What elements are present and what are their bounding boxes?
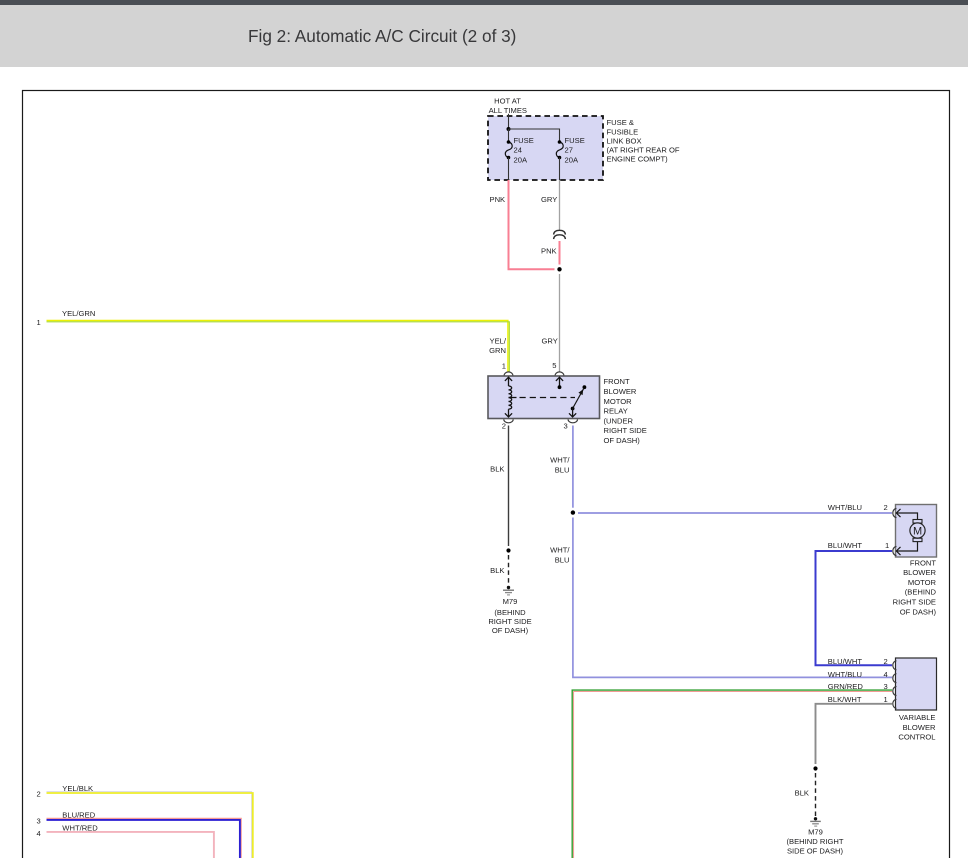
svg-text:BLK: BLK bbox=[795, 788, 809, 797]
label: VARIABLE BLOWER CONTROL bbox=[898, 713, 936, 742]
wire YEL/BLK: edge to bottom (yellow+faint pair) bbox=[47, 792, 253, 858]
relay coil with terminal arrows (pin1-pin2) bbox=[505, 377, 512, 417]
svg-text:1: 1 bbox=[885, 541, 889, 550]
svg-text:2: 2 bbox=[37, 789, 41, 798]
svg-text:1: 1 bbox=[502, 361, 506, 370]
svg-text:BLK: BLK bbox=[490, 465, 504, 474]
svg-text:FRONT: FRONT bbox=[604, 377, 631, 386]
svg-text:FUSE: FUSE bbox=[565, 136, 585, 145]
wire BLU/WHT: motor pin 1 to VBC pin 2 bbox=[816, 551, 893, 665]
svg-text:(BEHIND: (BEHIND bbox=[905, 588, 937, 597]
svg-text:VARIABLE: VARIABLE bbox=[899, 713, 936, 722]
connector arc: relay pin 3 bbox=[568, 419, 577, 422]
svg-text:WHT/BLU: WHT/BLU bbox=[828, 670, 862, 679]
svg-text:WHT/: WHT/ bbox=[550, 545, 570, 554]
wire BLK: relay pin 2 down bbox=[508, 426, 510, 547]
svg-text:MOTOR: MOTOR bbox=[908, 578, 937, 587]
svg-text:1: 1 bbox=[37, 318, 41, 327]
ground M79 (left) bbox=[503, 586, 514, 595]
connector arc: relay pin 1 bbox=[504, 372, 513, 376]
svg-text:BLU/WHT: BLU/WHT bbox=[828, 657, 863, 666]
label WHT/ BLU (lower) bbox=[550, 545, 570, 564]
svg-text:FUSE &: FUSE & bbox=[607, 118, 634, 127]
relay pin 5 contact stem bbox=[556, 377, 563, 387]
svg-text:MOTOR: MOTOR bbox=[604, 397, 633, 406]
svg-text:WHT/: WHT/ bbox=[550, 455, 570, 464]
wire BLU/RED: edge to bottom (red+blue pair) bbox=[47, 818, 242, 858]
svg-text:27: 27 bbox=[565, 146, 573, 155]
svg-text:4: 4 bbox=[37, 829, 41, 838]
wire: battery feed into fuse box bbox=[508, 114, 510, 129]
svg-text:4: 4 bbox=[884, 670, 888, 679]
svg-text:LINK BOX: LINK BOX bbox=[607, 136, 642, 145]
wire: bus to fuse 24 bbox=[508, 129, 510, 142]
svg-text:20A: 20A bbox=[565, 156, 579, 165]
wire: fuse 24 to box edge bbox=[508, 158, 510, 181]
connector arc: VBC pin 4 bbox=[893, 674, 897, 683]
relay dashed actuator link bbox=[509, 397, 517, 399]
connector arc: relay pin 5 bbox=[555, 372, 564, 376]
wire BLK dashed to ground (right) bbox=[815, 773, 817, 817]
svg-text:(UNDER: (UNDER bbox=[604, 416, 634, 425]
wire GRY: splice to relay pin 5 bbox=[559, 274, 561, 372]
svg-text:M79: M79 bbox=[503, 597, 518, 606]
label YEL/ GRN (vertical run) bbox=[489, 336, 507, 355]
svg-text:2: 2 bbox=[884, 657, 888, 666]
wire: fuse 27 to box edge bbox=[559, 158, 561, 181]
svg-text:CONTROL: CONTROL bbox=[898, 733, 935, 742]
blower motor box bbox=[896, 505, 937, 558]
wire YEL/GRN: edge to relay pin 1 (yellow+green pair) bbox=[47, 321, 510, 372]
svg-text:PNK: PNK bbox=[541, 246, 557, 255]
svg-text:HOT AT: HOT AT bbox=[494, 97, 521, 106]
svg-text:OF DASH): OF DASH) bbox=[492, 626, 529, 635]
fuse 24 20A bbox=[505, 142, 512, 158]
svg-text:BLOWER: BLOWER bbox=[903, 568, 936, 577]
top dark bar bbox=[0, 0, 968, 5]
svg-text:BLU: BLU bbox=[555, 465, 570, 474]
label: M79 (BEHIND RIGHT SIDE OF DASH) right bbox=[787, 828, 844, 856]
connector arc: relay pin 2 bbox=[504, 419, 513, 422]
svg-text:OF DASH): OF DASH) bbox=[900, 607, 937, 616]
label: FRONT BLOWER MOTOR RELAY (UNDER RIGHT SIDE OF DASH) bbox=[604, 377, 647, 445]
svg-text:BLOWER: BLOWER bbox=[903, 723, 936, 732]
wire WHT/RED: edge to bottom bbox=[47, 832, 214, 858]
svg-text:M: M bbox=[913, 526, 922, 538]
wire BLK/WHT: VBC pin 1 down bbox=[816, 704, 893, 764]
label: FUSE 24 20A bbox=[514, 136, 534, 165]
svg-text:BLOWER: BLOWER bbox=[604, 387, 637, 396]
svg-text:GRY: GRY bbox=[541, 195, 557, 204]
wire PNK: fuse 24 to splice bbox=[509, 180, 555, 269]
svg-text:FUSE: FUSE bbox=[514, 136, 534, 145]
label: FRONT BLOWER MOTOR (BEHIND RIGHT SIDE OF DASH) bbox=[893, 558, 937, 616]
svg-text:3: 3 bbox=[37, 816, 41, 825]
svg-text:(BEHIND RIGHT: (BEHIND RIGHT bbox=[787, 837, 844, 846]
node on BLK wire bbox=[506, 548, 510, 552]
relay switch arm (pin 3) bbox=[569, 385, 586, 417]
motor internal: pin1 lead with arrow bbox=[896, 542, 917, 555]
svg-text:20A: 20A bbox=[514, 156, 528, 165]
svg-text:RELAY: RELAY bbox=[604, 407, 628, 416]
motor M symbol bbox=[910, 520, 925, 542]
header strip bbox=[0, 5, 968, 67]
inline connector on GRY/PNK wire bbox=[554, 230, 566, 239]
ground M79 (right) bbox=[810, 817, 821, 826]
wire PNK: connector to splice node bbox=[559, 241, 561, 265]
node on BLK/WHT ground wire bbox=[813, 766, 817, 770]
svg-text:GRY: GRY bbox=[542, 336, 558, 345]
svg-text:2: 2 bbox=[502, 422, 506, 431]
svg-text:FRONT: FRONT bbox=[910, 558, 937, 567]
svg-text:RIGHT SIDE: RIGHT SIDE bbox=[488, 617, 531, 626]
svg-text:3: 3 bbox=[564, 421, 568, 430]
svg-text:YEL/GRN: YEL/GRN bbox=[62, 309, 95, 318]
variable blower control box bbox=[896, 658, 937, 710]
relay box: FRONT BLOWER MOTOR RELAY bbox=[488, 376, 600, 419]
connector arc: VBC pin 3 bbox=[893, 687, 897, 696]
svg-text:M79: M79 bbox=[808, 828, 823, 837]
wire BLK dashed to ground bbox=[508, 555, 510, 585]
connector arc: VBC pin 2 bbox=[893, 661, 897, 670]
label: M79 (BEHIND RIGHT SIDE OF DASH) bbox=[488, 597, 531, 635]
node: PNK/GRY splice bbox=[557, 267, 561, 271]
svg-text:24: 24 bbox=[514, 146, 522, 155]
svg-text:SIDE OF DASH): SIDE OF DASH) bbox=[787, 846, 844, 855]
node: WHT/BLU splice to motor bbox=[568, 508, 578, 518]
fuse 27 20A bbox=[556, 142, 563, 158]
wire WHT/BLU: splice to blower motor pin 2 bbox=[578, 512, 892, 514]
svg-text:OF DASH): OF DASH) bbox=[604, 436, 641, 445]
connector arc: motor pin 1 bbox=[893, 547, 897, 556]
svg-text:YEL/: YEL/ bbox=[490, 336, 507, 345]
svg-text:FUSIBLE: FUSIBLE bbox=[607, 127, 639, 136]
svg-text:5: 5 bbox=[552, 361, 556, 370]
label WHT/ BLU bbox=[550, 455, 570, 474]
svg-text:PNK: PNK bbox=[490, 195, 506, 204]
svg-text:(BEHIND: (BEHIND bbox=[494, 608, 526, 617]
connector arc: motor pin 2 bbox=[893, 509, 897, 518]
wire: bus to fuse 27 bbox=[509, 129, 560, 142]
svg-text:BLU: BLU bbox=[555, 556, 570, 565]
svg-text:BLK: BLK bbox=[490, 566, 504, 575]
wire GRN/RED: bottom edge up to VBC pin 3 (green+red pair) bbox=[572, 690, 892, 858]
svg-text:WHT/BLU: WHT/BLU bbox=[828, 503, 862, 512]
svg-text:ENGINE COMPT): ENGINE COMPT) bbox=[607, 155, 669, 164]
svg-text:BLK/WHT: BLK/WHT bbox=[828, 695, 862, 704]
title bbox=[248, 26, 516, 47]
wire WHT/BLU: relay pin 3 down, across to VBC pin 4 bbox=[573, 426, 892, 678]
connector arc: VBC pin 1 bbox=[893, 699, 897, 708]
label: HOT AT ALL TIMES bbox=[489, 97, 527, 115]
svg-text:GRN: GRN bbox=[489, 346, 506, 355]
svg-text:RIGHT SIDE: RIGHT SIDE bbox=[893, 598, 936, 607]
svg-text:(AT RIGHT REAR OF: (AT RIGHT REAR OF bbox=[607, 146, 680, 155]
svg-text:BLU/WHT: BLU/WHT bbox=[828, 541, 863, 550]
wire GRY: fuse 27 down to connector bbox=[559, 180, 561, 231]
svg-text:2: 2 bbox=[884, 503, 888, 512]
node: fuse bus junction bbox=[507, 127, 511, 131]
svg-text:ALL TIMES: ALL TIMES bbox=[489, 106, 527, 115]
label: FUSE 27 20A bbox=[565, 136, 585, 165]
svg-text:RIGHT SIDE: RIGHT SIDE bbox=[604, 426, 647, 435]
motor internal: pin2 lead with arrow bbox=[896, 509, 917, 520]
fuse box (FUSE & FUSIBLE LINK BOX) bbox=[488, 116, 603, 180]
label: FUSE & FUSIBLE LINK BOX (AT RIGHT REAR OF ENGINE COMPT) bbox=[607, 118, 680, 163]
svg-text:1: 1 bbox=[884, 695, 888, 704]
